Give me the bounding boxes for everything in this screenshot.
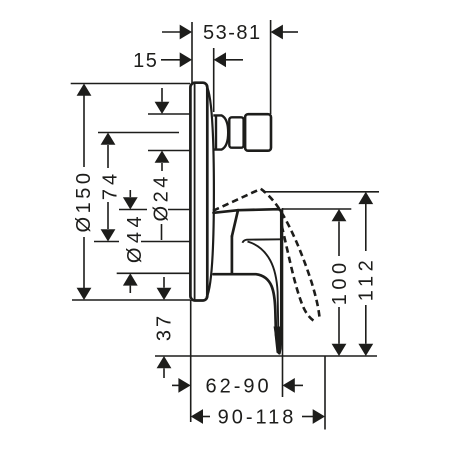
37 leaders <box>163 277 165 288</box>
svg-text:Ø44: Ø44 <box>124 212 146 263</box>
arrows 112 <box>358 192 373 204</box>
100 top line <box>282 208 352 210</box>
extension line x270.6 (53-81 right) <box>270 20 272 114</box>
arrows dia150 <box>77 84 92 96</box>
neck top <box>214 210 239 213</box>
left edge <box>231 236 234 273</box>
arrows dia24 (outside) <box>155 102 170 114</box>
plate inner face line <box>194 84 196 300</box>
inner top line <box>243 239 282 243</box>
dia24 bottom line <box>148 150 190 152</box>
dim 15 tails <box>161 59 181 61</box>
handle tip solid fill <box>274 327 282 355</box>
svg-text:Ø24: Ø24 <box>151 173 173 221</box>
dim 62-90 tails <box>172 384 180 386</box>
svg-text:53-81: 53-81 <box>203 22 262 44</box>
dia44 bottom line <box>117 272 190 274</box>
dimension texts <box>133 22 296 429</box>
74 leaders <box>107 145 109 168</box>
mid cylinder <box>229 117 243 147</box>
baseline y356 <box>155 355 377 357</box>
plate outer bulge contour <box>207 86 214 298</box>
escutcheon plate outline <box>190 83 214 301</box>
handle (solid, lowered position) <box>214 209 282 353</box>
svg-text:112: 112 <box>356 256 378 301</box>
dia44 top line <box>119 209 147 211</box>
dia150 leader <box>83 96 85 168</box>
connector stub (dia24) <box>213 114 271 151</box>
arrows 15 <box>180 52 192 67</box>
dia24 top line <box>148 113 190 115</box>
arrows 90-118 (inside) <box>191 409 203 424</box>
left slant <box>232 210 238 236</box>
112 top line <box>263 191 379 193</box>
extension x282.5 (62-90 right) <box>282 208 284 397</box>
extension line x213.7 (15 right) <box>213 48 215 112</box>
svg-text:90-118: 90-118 <box>218 407 297 429</box>
74 top line (stub centerline) <box>98 132 179 134</box>
arrows 74 (inside) <box>101 133 116 145</box>
arrows 37 (outside) <box>157 288 172 300</box>
arrows dia44 (outside) <box>123 197 138 209</box>
dim 90-118 tails <box>203 416 211 418</box>
inner curve <box>248 242 280 350</box>
112 leaders <box>365 204 367 251</box>
neck bottom + lever underside curve <box>214 274 278 352</box>
extension line x192 (plate face plane, top) <box>191 22 193 84</box>
svg-text:74: 74 <box>99 170 121 200</box>
svg-text:15: 15 <box>133 50 158 72</box>
arrows 53-81 <box>180 25 192 40</box>
svg-text:Ø150: Ø150 <box>73 170 95 233</box>
arrows 100 <box>332 209 347 221</box>
plate bottom extension line <box>72 299 190 301</box>
arrows 62-90 (outside) <box>178 378 190 393</box>
handle top + right edge <box>238 209 281 353</box>
svg-text:62-90: 62-90 <box>206 376 272 398</box>
svg-text:100: 100 <box>329 258 351 305</box>
dim 53-81 tails <box>162 31 181 33</box>
svg-text:37: 37 <box>153 313 175 341</box>
plate top extension line <box>71 83 190 85</box>
dashed raised handle <box>213 189 320 323</box>
74 bottom line <box>94 241 119 243</box>
extension x325 (90-118 right) <box>324 356 326 430</box>
100 leaders <box>338 222 340 257</box>
dia44 leaders <box>129 190 131 197</box>
extension x190.7 (bottom dims left) <box>190 300 192 422</box>
dia24 leaders <box>161 88 163 102</box>
outlet block <box>245 114 271 151</box>
